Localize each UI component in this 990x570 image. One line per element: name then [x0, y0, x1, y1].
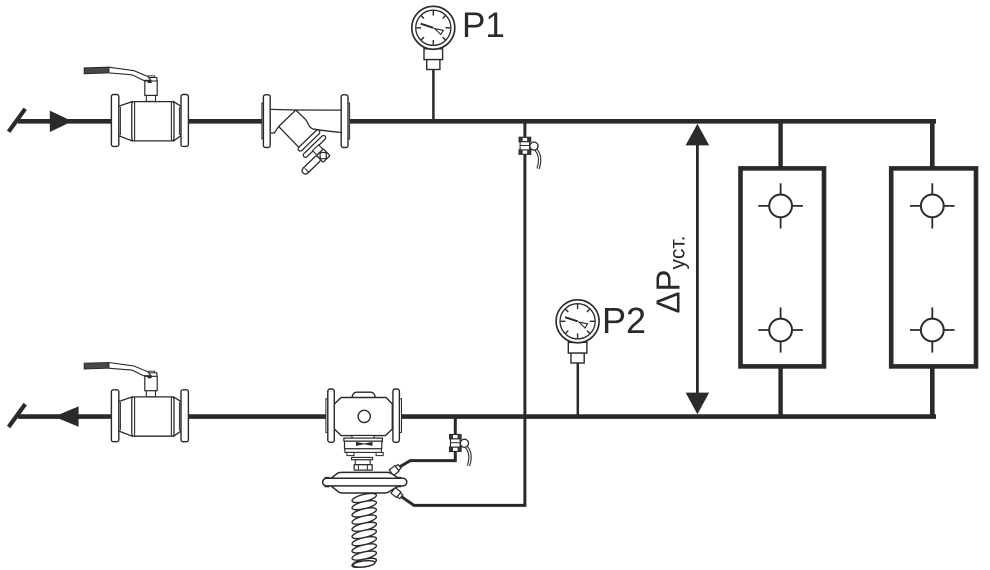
Y-strainer body top edge: [271, 108, 341, 111]
Y-strainer outlet bottom edge: [315, 129, 340, 132]
svg-text:P1: P1: [462, 6, 505, 45]
Y-strainer throat curve: [296, 110, 316, 129]
bottom pipe break slash: [9, 404, 26, 427]
pressure gauge P1: [412, 6, 455, 69]
flow arrow right: [50, 111, 73, 132]
diaphragm ports (nipples): [389, 464, 403, 500]
riser to load 2 top (elbow): [930, 121, 935, 170]
regulator bonnet: [352, 436, 374, 439]
riser to load 1 top: [778, 121, 782, 170]
Y-strainer inlet bottom edge: [271, 127, 279, 134]
diaphragm chamber: [323, 472, 407, 493]
impulse line from top pipe to lower diaphragm port: [400, 121, 525, 505]
regulator stem: [352, 457, 373, 459]
ball valve bottom: [84, 363, 188, 442]
top pipe break slash: [9, 109, 26, 132]
impulse line from bottom pipe to upper diaphragm port: [399, 417, 455, 468]
gauge P1 connection line: [432, 69, 435, 121]
top supply pipe: [18, 119, 936, 124]
svg-text:ΔPуст.: ΔPуст.: [650, 236, 690, 314]
heat load unit 2: [891, 168, 976, 366]
ball valve top: [84, 67, 188, 146]
gauge P2 connection line: [577, 364, 580, 417]
needle tap valve top: [519, 137, 540, 168]
delta-P span arrow: [686, 124, 710, 414]
Y-strainer filter leg, cap plates, drain plug and handle: [268, 108, 337, 177]
riser from load 1 bottom: [778, 365, 782, 417]
differential pressure regulator valve body: [326, 389, 402, 470]
Y-strainer flange side tabs: [262, 103, 350, 139]
Y-strainer flanges: [263, 95, 348, 148]
needle tap valve bottom: [450, 435, 471, 466]
bottom return pipe: [18, 414, 936, 419]
svg-text:P2: P2: [602, 300, 646, 341]
regulator spring: [351, 492, 377, 570]
Y-strainer body fill: [271, 109, 341, 133]
heat load unit 1: [741, 168, 825, 366]
pressure gauge P2: [556, 300, 599, 363]
riser from load 2 bottom: [930, 365, 935, 417]
flow arrow left: [54, 406, 79, 426]
